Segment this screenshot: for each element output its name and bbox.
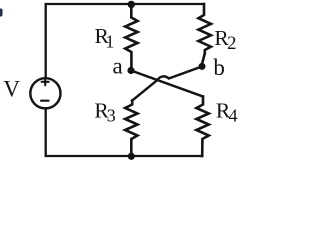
resistor R3 — [125, 101, 137, 157]
resistor R1 — [125, 4, 137, 67]
wire node b to R3 with hop over — [132, 67, 202, 101]
wire left rail upper + top wire — [46, 4, 204, 78]
svg-text:b: b — [213, 55, 225, 80]
resistor R2 — [198, 4, 211, 63]
wire node a to R4 (diagonal) — [131, 71, 203, 97]
node b dot — [199, 63, 206, 70]
node a dot — [127, 67, 134, 74]
svg-text:a: a — [113, 54, 123, 79]
svg-text:V: V — [3, 77, 20, 102]
node junction dot top (R1 to top wire) — [128, 1, 135, 8]
wire left rail lower + bottom wire — [46, 108, 203, 156]
svg-text:R2: R2 — [214, 26, 236, 54]
resistor R4 — [196, 97, 208, 157]
node junction dot bottom (R3 to bottom wire) — [128, 153, 135, 160]
svg-text:R3: R3 — [94, 98, 115, 125]
minus sign of source — [41, 100, 48, 102]
svg-text:R4: R4 — [216, 99, 238, 126]
blue fragment at left edge — [0, 9, 3, 17]
svg-text:R1: R1 — [95, 24, 115, 52]
plus sign of source — [42, 79, 49, 86]
voltage source V circle — [30, 78, 60, 108]
